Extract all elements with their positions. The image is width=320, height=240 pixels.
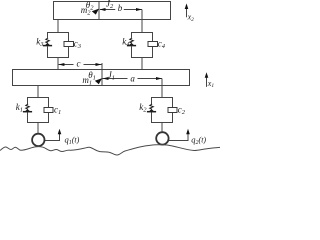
ground profile q(x) wavy road bbox=[0, 145, 220, 155]
lower-left unit frame bbox=[28, 98, 49, 133]
wire: c dimension line right segment bbox=[84, 64, 102, 66]
arrowhead q1 up bbox=[58, 129, 62, 135]
arrowhead c right bbox=[96, 63, 102, 66]
wire: b dimension line right segment bbox=[124, 9, 142, 11]
arrowhead b right bbox=[136, 8, 142, 11]
damper c3 bbox=[64, 42, 74, 47]
spring k2 bbox=[147, 104, 156, 112]
wire: a dimension line left segment bbox=[103, 78, 128, 80]
svg-text:c: c bbox=[77, 58, 81, 68]
wire: leader from right wheel to q2 arrow bbox=[169, 133, 188, 141]
spring k1 bbox=[23, 104, 32, 112]
damper c4 bbox=[148, 42, 158, 47]
svg-text:q1(t): q1(t) bbox=[65, 135, 80, 146]
arrowhead b left bbox=[100, 8, 106, 11]
mass bar m1 (lower body) bbox=[13, 70, 190, 86]
svg-text:q2(t): q2(t) bbox=[191, 135, 206, 146]
spring k4 bbox=[127, 38, 136, 46]
lower-right unit frame bbox=[152, 98, 173, 132]
pivot wedge marker on m1 bbox=[95, 78, 102, 84]
damper c2 bbox=[168, 108, 177, 113]
upper-left unit frame bbox=[48, 33, 69, 70]
wire: upper-left suspension drop from m2 bbox=[57, 20, 59, 33]
wire: a dimension line right segment bbox=[138, 78, 163, 80]
svg-text:b: b bbox=[118, 3, 123, 13]
wheel (left tire) bbox=[32, 134, 44, 146]
arrowhead a right bbox=[156, 77, 162, 80]
arrowhead a left bbox=[103, 77, 109, 80]
damper c1 bbox=[44, 108, 53, 113]
pivot wedge marker on m2 bbox=[92, 9, 99, 15]
arrowhead x1 up bbox=[205, 72, 209, 78]
wire: lower-left suspension drop from m1 bbox=[37, 86, 39, 98]
wire: leader from left wheel to q1 arrow bbox=[45, 133, 60, 141]
x1 reference arrow shaft bbox=[206, 77, 208, 87]
wheel (right tire) bbox=[156, 132, 168, 144]
upper-right unit frame bbox=[132, 33, 153, 70]
pivot axis line of m2 bbox=[98, 2, 100, 20]
wire: b dimension line left segment bbox=[100, 9, 115, 11]
x2 reference arrow shaft bbox=[186, 8, 188, 18]
wire: upper-right suspension drop from b-line through m2 bbox=[141, 10, 143, 33]
wire: lower-right suspension drop from a-line through m1 bbox=[161, 79, 163, 98]
arrowhead q2 up bbox=[186, 129, 190, 135]
spring k3 bbox=[43, 38, 52, 46]
svg-text:a: a bbox=[130, 74, 135, 84]
pivot axis line of m1 bbox=[101, 63, 103, 86]
wire: c dimension line left segment bbox=[59, 64, 74, 66]
arrowhead c left bbox=[58, 63, 64, 66]
mass bar m2 (upper body) bbox=[54, 2, 171, 20]
arrowhead x2 up bbox=[185, 3, 189, 9]
